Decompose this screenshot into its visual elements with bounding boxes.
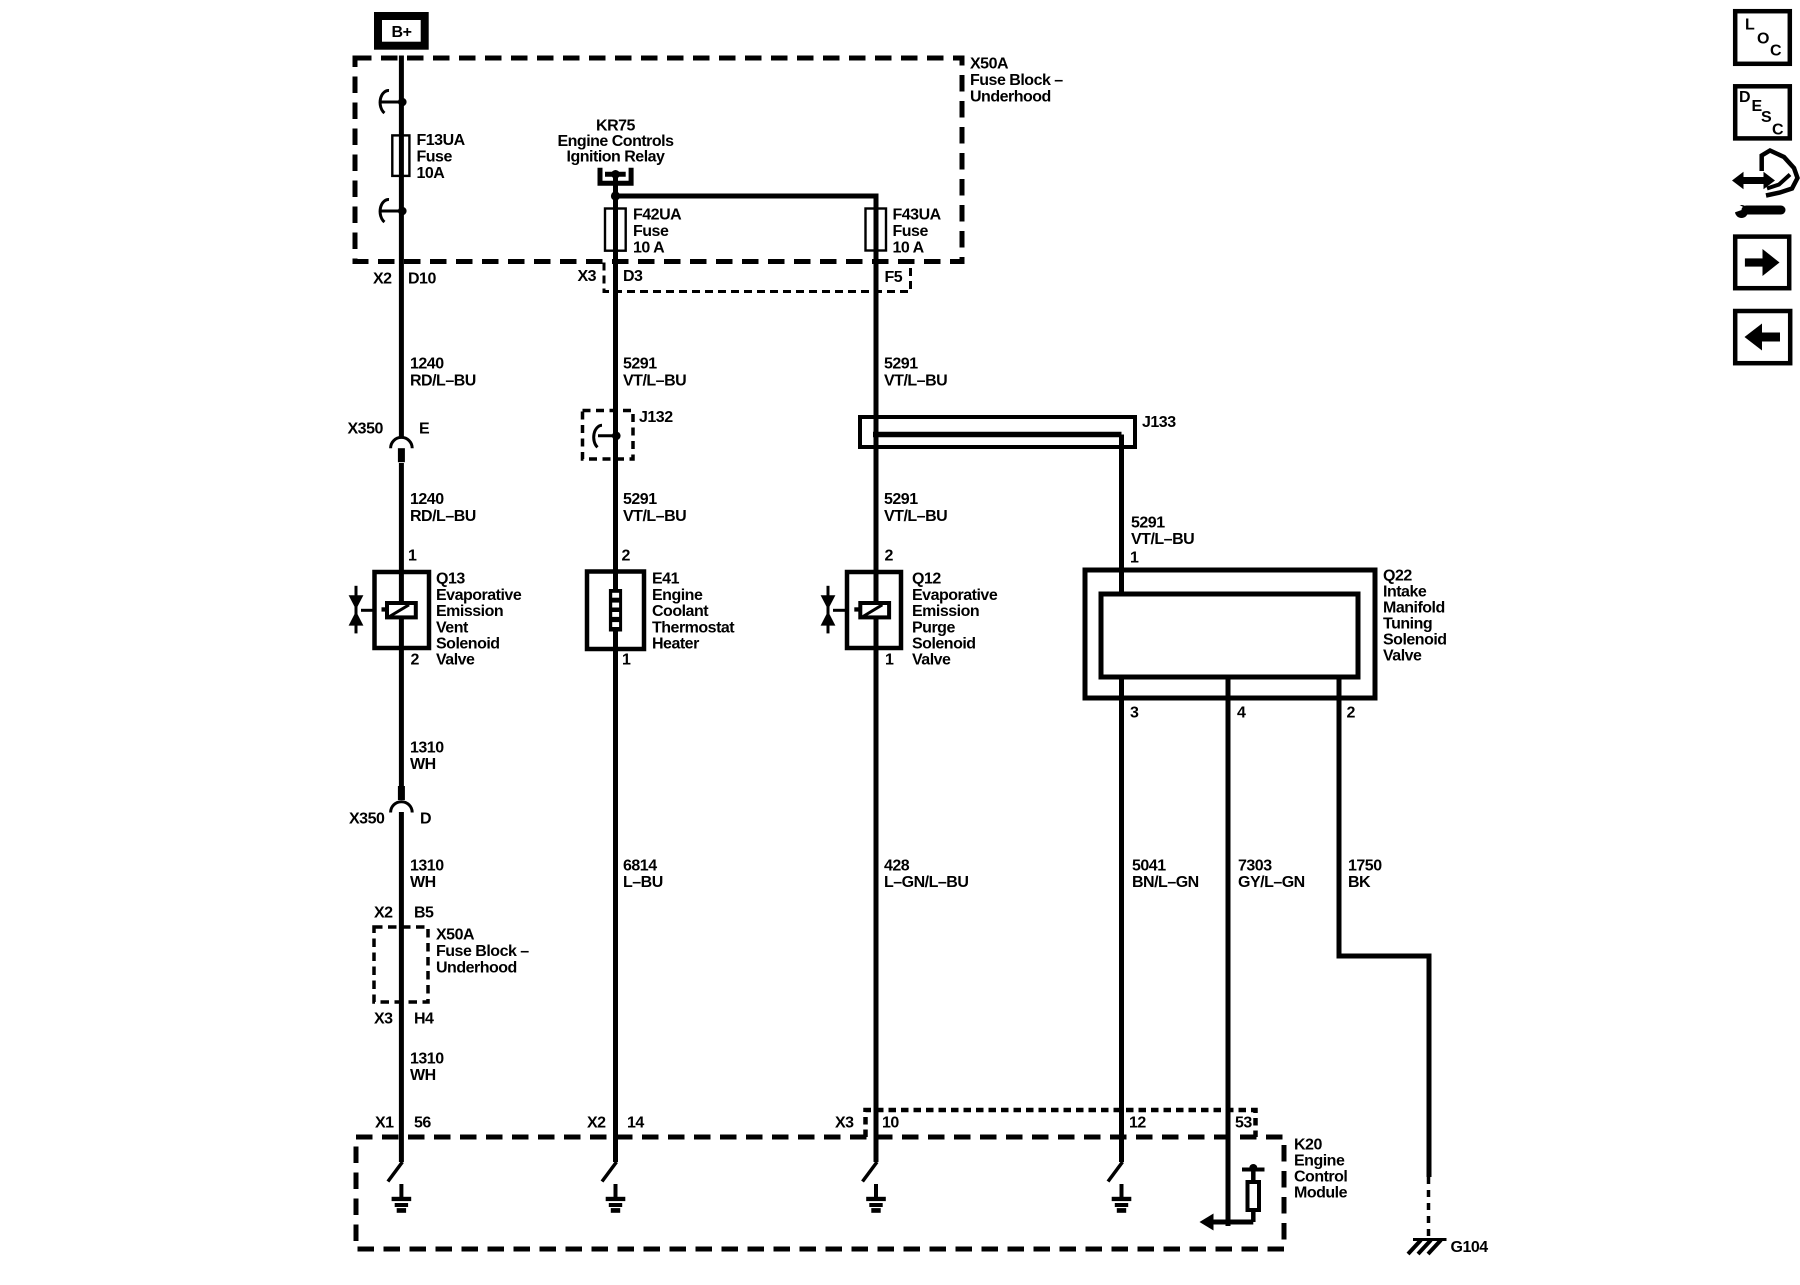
svg-text:WH: WH bbox=[410, 1067, 436, 1084]
svg-text:X3: X3 bbox=[578, 268, 597, 285]
svg-text:E41: E41 bbox=[652, 571, 680, 588]
svg-text:WH: WH bbox=[410, 756, 436, 773]
svg-text:Fuse: Fuse bbox=[633, 223, 669, 240]
svg-text:S: S bbox=[1761, 109, 1772, 126]
svg-text:2: 2 bbox=[622, 548, 631, 565]
svg-text:X350: X350 bbox=[349, 811, 385, 828]
svg-text:B+: B+ bbox=[392, 24, 412, 41]
svg-text:5291: 5291 bbox=[623, 356, 657, 373]
svg-text:10A: 10A bbox=[417, 165, 446, 182]
svg-text:X2: X2 bbox=[374, 905, 393, 922]
svg-text:VT/L–BU: VT/L–BU bbox=[884, 508, 947, 525]
svg-text:Q22: Q22 bbox=[1383, 568, 1412, 585]
svg-text:D: D bbox=[1739, 89, 1750, 106]
svg-text:X50A: X50A bbox=[970, 56, 1009, 73]
svg-text:O: O bbox=[1757, 31, 1769, 48]
svg-text:3: 3 bbox=[1130, 705, 1139, 722]
svg-text:WH: WH bbox=[410, 874, 436, 891]
svg-text:56: 56 bbox=[414, 1115, 431, 1132]
svg-text:J132: J132 bbox=[639, 409, 673, 426]
svg-text:B5: B5 bbox=[414, 905, 434, 922]
svg-text:6814: 6814 bbox=[623, 858, 657, 875]
svg-text:D10: D10 bbox=[408, 271, 436, 288]
svg-text:Valve: Valve bbox=[436, 652, 475, 669]
svg-text:Underhood: Underhood bbox=[970, 89, 1051, 106]
svg-text:BK: BK bbox=[1348, 874, 1371, 891]
svg-text:Tuning: Tuning bbox=[1383, 616, 1432, 633]
svg-text:Vent: Vent bbox=[436, 619, 469, 636]
svg-text:14: 14 bbox=[627, 1115, 644, 1132]
svg-text:Q12: Q12 bbox=[912, 571, 941, 588]
svg-text:J133: J133 bbox=[1142, 414, 1176, 431]
svg-text:5291: 5291 bbox=[884, 491, 918, 508]
svg-text:K20: K20 bbox=[1294, 1137, 1322, 1154]
svg-text:5291: 5291 bbox=[623, 491, 657, 508]
svg-text:D: D bbox=[420, 811, 431, 828]
svg-text:X50A: X50A bbox=[436, 927, 475, 944]
svg-text:RD/L–BU: RD/L–BU bbox=[410, 373, 476, 390]
svg-text:Emission: Emission bbox=[436, 603, 503, 620]
svg-text:Fuse Block –: Fuse Block – bbox=[970, 72, 1063, 89]
svg-text:G104: G104 bbox=[1451, 1239, 1489, 1256]
svg-text:L–BU: L–BU bbox=[623, 874, 663, 891]
svg-text:F5: F5 bbox=[885, 269, 903, 286]
svg-text:1310: 1310 bbox=[410, 1051, 444, 1068]
svg-text:X2: X2 bbox=[373, 271, 392, 288]
svg-text:1: 1 bbox=[622, 652, 631, 669]
svg-text:1240: 1240 bbox=[410, 491, 444, 508]
svg-text:Valve: Valve bbox=[912, 652, 951, 669]
svg-text:12: 12 bbox=[1129, 1115, 1146, 1132]
svg-text:7303: 7303 bbox=[1238, 858, 1272, 875]
svg-text:Valve: Valve bbox=[1383, 648, 1422, 665]
svg-text:L: L bbox=[1745, 17, 1755, 34]
svg-text:X3: X3 bbox=[835, 1115, 854, 1132]
svg-text:Heater: Heater bbox=[652, 636, 699, 653]
svg-text:Engine: Engine bbox=[652, 587, 703, 604]
svg-text:5291: 5291 bbox=[884, 356, 918, 373]
svg-text:X2: X2 bbox=[587, 1115, 606, 1132]
svg-text:Q13: Q13 bbox=[436, 571, 465, 588]
svg-text:1: 1 bbox=[1130, 550, 1139, 567]
svg-text:10: 10 bbox=[882, 1115, 899, 1132]
svg-text:428: 428 bbox=[884, 858, 910, 875]
svg-text:Evaporative: Evaporative bbox=[912, 587, 998, 604]
svg-text:GY/L–GN: GY/L–GN bbox=[1238, 874, 1305, 891]
svg-text:1310: 1310 bbox=[410, 739, 444, 756]
svg-text:2: 2 bbox=[885, 548, 894, 565]
svg-text:Intake: Intake bbox=[1383, 584, 1427, 601]
svg-text:Coolant: Coolant bbox=[652, 603, 709, 620]
svg-text:VT/L–BU: VT/L–BU bbox=[623, 373, 686, 390]
svg-text:E: E bbox=[419, 421, 430, 438]
svg-text:Control: Control bbox=[1294, 1169, 1347, 1186]
svg-text:KR75: KR75 bbox=[596, 118, 636, 135]
svg-text:1750: 1750 bbox=[1348, 858, 1382, 875]
svg-text:Fuse: Fuse bbox=[893, 223, 929, 240]
svg-text:Purge: Purge bbox=[912, 619, 955, 636]
svg-text:Engine Controls: Engine Controls bbox=[557, 133, 674, 150]
svg-text:C: C bbox=[1770, 43, 1782, 60]
svg-text:Engine: Engine bbox=[1294, 1153, 1345, 1170]
svg-text:Solenoid: Solenoid bbox=[1383, 632, 1447, 649]
svg-text:1310: 1310 bbox=[410, 858, 444, 875]
svg-text:Manifold: Manifold bbox=[1383, 600, 1445, 617]
svg-text:X350: X350 bbox=[348, 421, 384, 438]
svg-text:Module: Module bbox=[1294, 1185, 1348, 1202]
svg-text:4: 4 bbox=[1237, 705, 1246, 722]
svg-text:RD/L–BU: RD/L–BU bbox=[410, 508, 476, 525]
svg-text:Fuse Block –: Fuse Block – bbox=[436, 943, 529, 960]
svg-text:1240: 1240 bbox=[410, 356, 444, 373]
svg-text:Solenoid: Solenoid bbox=[436, 636, 500, 653]
svg-text:2: 2 bbox=[411, 652, 420, 669]
svg-text:2: 2 bbox=[1347, 705, 1356, 722]
svg-text:VT/L–BU: VT/L–BU bbox=[623, 508, 686, 525]
svg-text:VT/L–BU: VT/L–BU bbox=[1131, 531, 1194, 548]
svg-text:X3: X3 bbox=[374, 1011, 393, 1028]
svg-text:5291: 5291 bbox=[1131, 515, 1165, 532]
svg-text:VT/L–BU: VT/L–BU bbox=[884, 373, 947, 390]
svg-text:BN/L–GN: BN/L–GN bbox=[1132, 874, 1199, 891]
svg-text:10 A: 10 A bbox=[893, 240, 925, 257]
svg-text:D3: D3 bbox=[623, 268, 643, 285]
svg-text:Underhood: Underhood bbox=[436, 960, 517, 977]
svg-text:Solenoid: Solenoid bbox=[912, 636, 976, 653]
svg-text:10 A: 10 A bbox=[633, 240, 665, 257]
svg-text:5041: 5041 bbox=[1132, 858, 1166, 875]
svg-text:F43UA: F43UA bbox=[893, 207, 942, 224]
svg-text:F42UA: F42UA bbox=[633, 207, 682, 224]
svg-text:Evaporative: Evaporative bbox=[436, 587, 522, 604]
svg-text:Thermostat: Thermostat bbox=[652, 619, 735, 636]
svg-text:Emission: Emission bbox=[912, 603, 979, 620]
svg-text:X1: X1 bbox=[375, 1115, 394, 1132]
svg-text:L–GN/L–BU: L–GN/L–BU bbox=[884, 874, 968, 891]
svg-text:C: C bbox=[1772, 121, 1784, 138]
svg-text:Fuse: Fuse bbox=[417, 149, 453, 166]
svg-text:53: 53 bbox=[1235, 1115, 1252, 1132]
svg-text:1: 1 bbox=[408, 548, 417, 565]
svg-text:1: 1 bbox=[885, 652, 894, 669]
svg-text:H4: H4 bbox=[414, 1011, 434, 1028]
svg-text:Ignition Relay: Ignition Relay bbox=[567, 149, 666, 166]
svg-text:F13UA: F13UA bbox=[417, 132, 466, 149]
